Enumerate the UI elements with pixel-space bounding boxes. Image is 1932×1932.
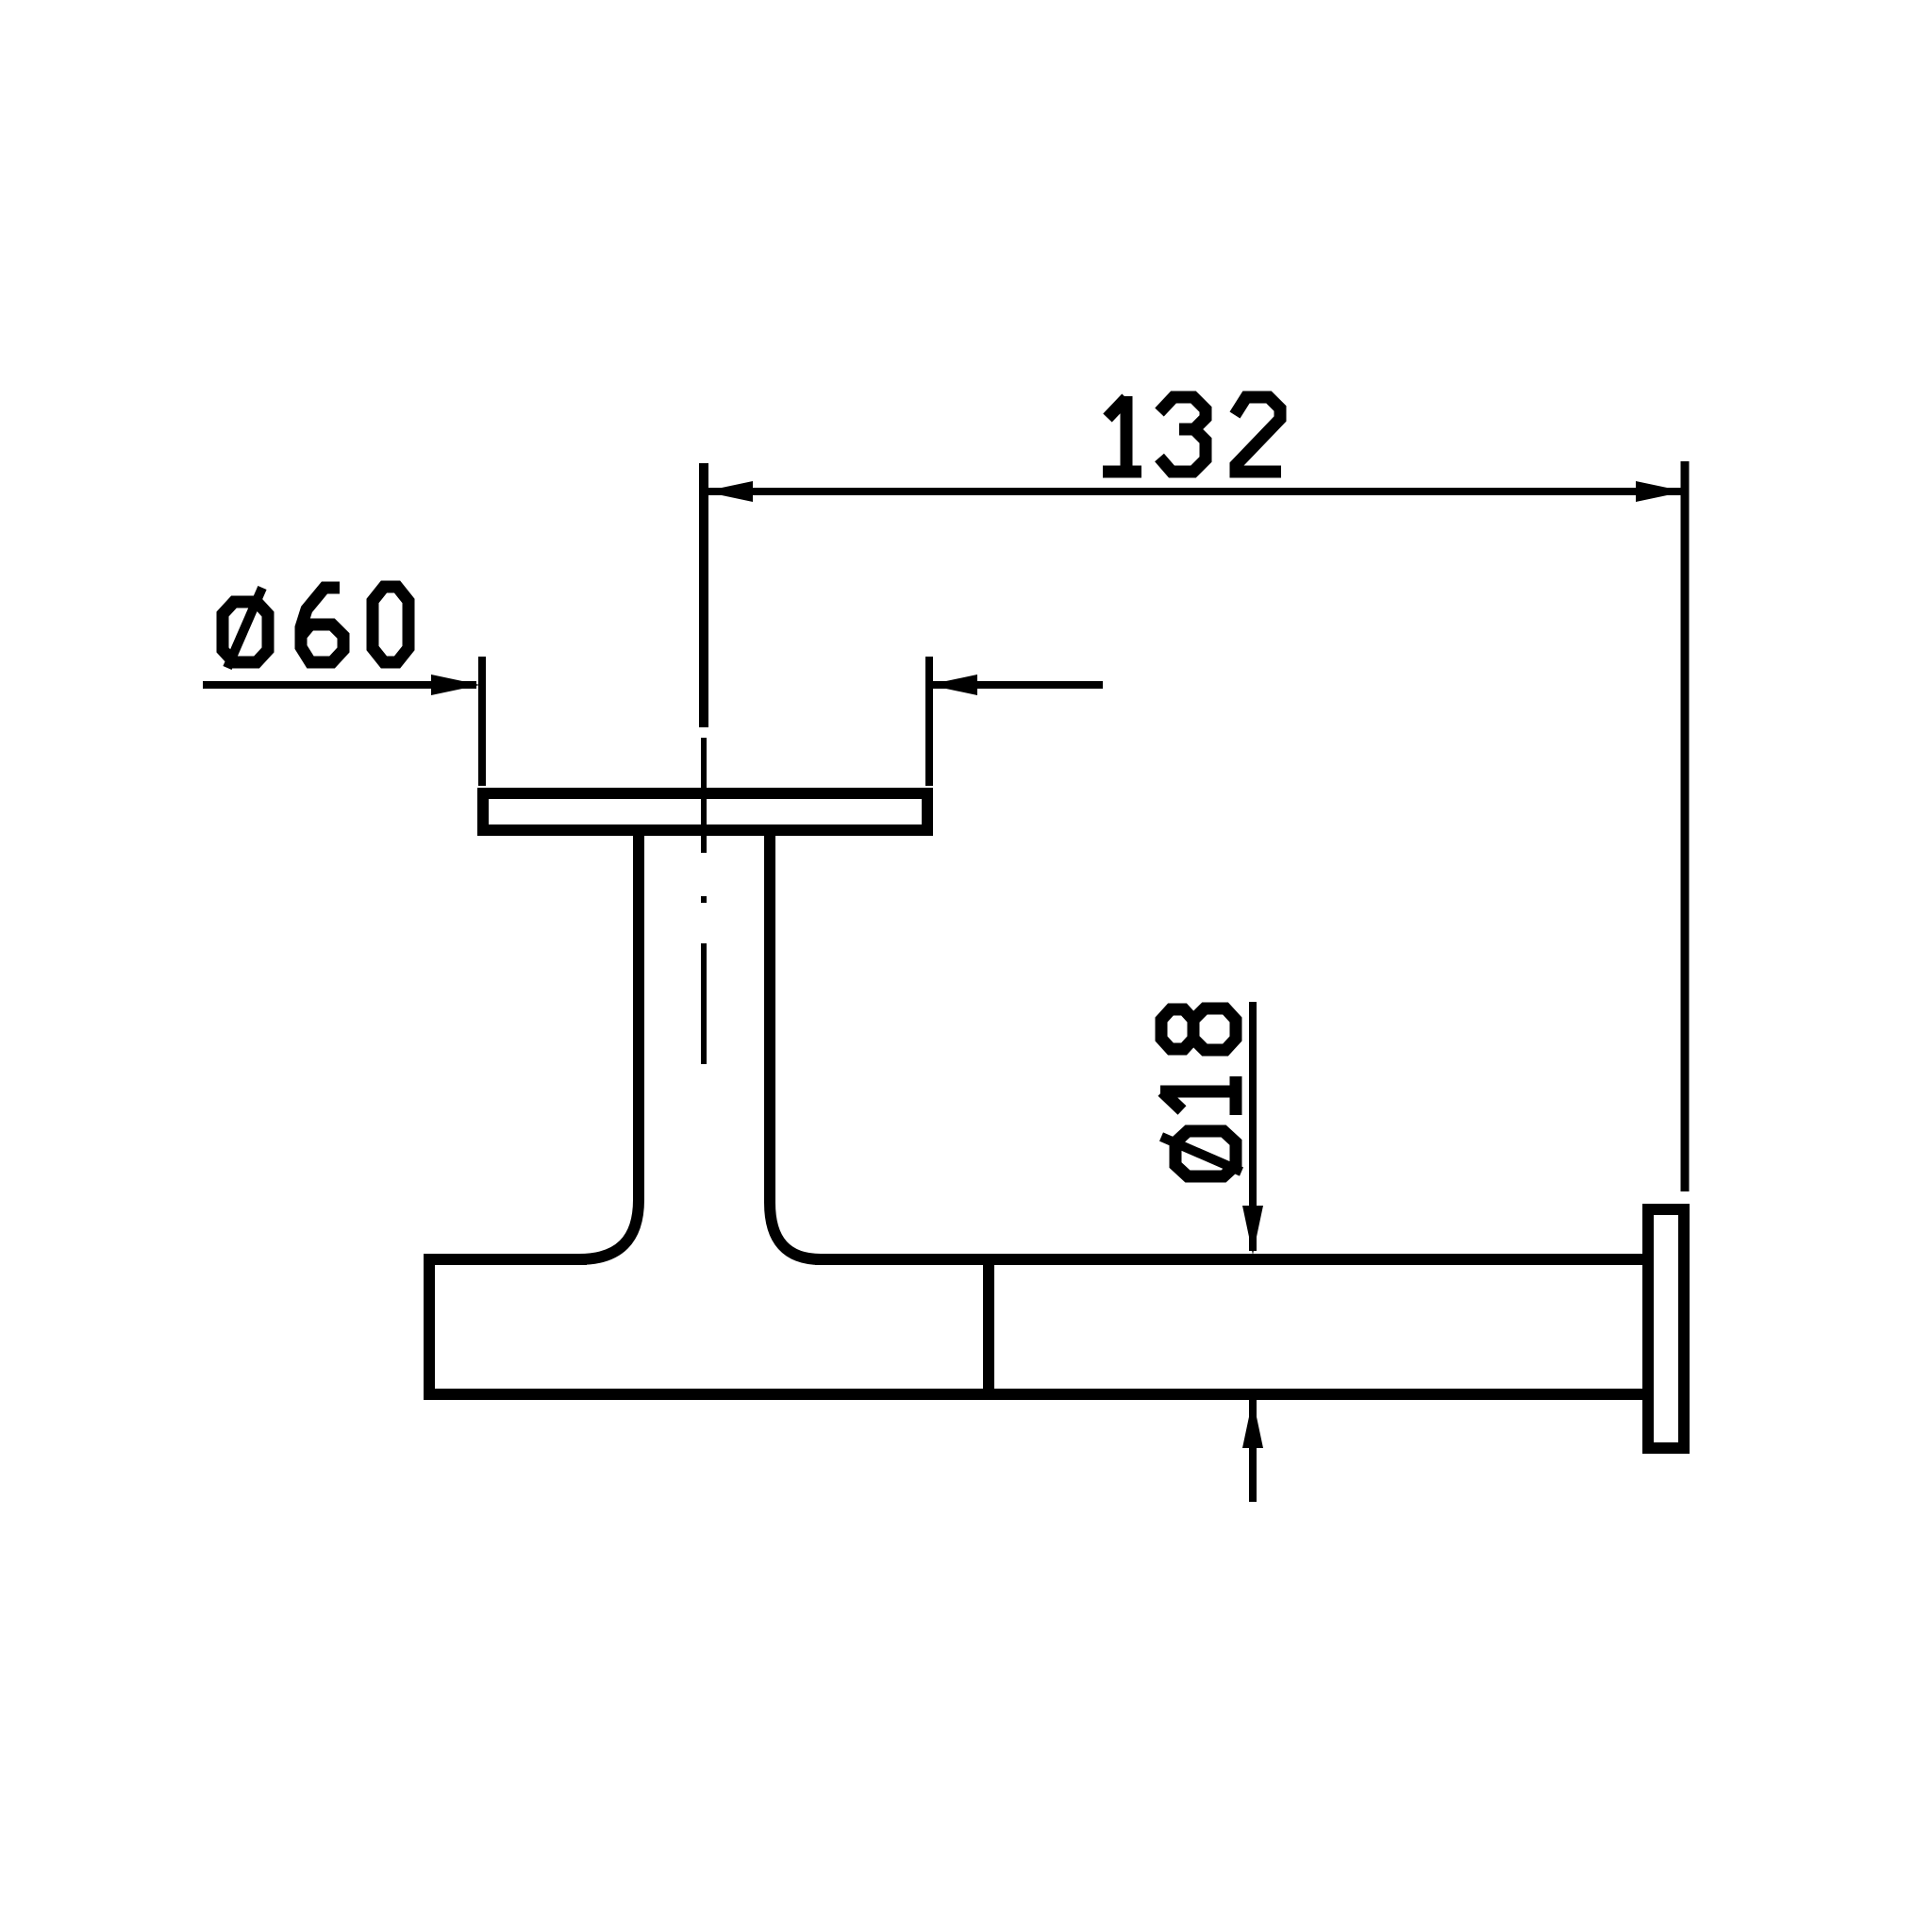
bar divider line bbox=[983, 1259, 994, 1394]
arrowhead Ø18 upper bbox=[1242, 1206, 1263, 1255]
dimension line 132 bbox=[704, 488, 1685, 495]
arrowhead 132 left bbox=[704, 481, 753, 502]
wall plate (right end) bbox=[1648, 1209, 1684, 1448]
dimension line Ø18 lower bbox=[1249, 1400, 1257, 1502]
bar (roll rail) outline bbox=[429, 1259, 1642, 1394]
arrowhead Ø18 lower bbox=[1242, 1399, 1263, 1448]
dimension line Ø60 right bbox=[932, 681, 1103, 689]
extension line Ø60 left bbox=[478, 657, 486, 786]
arrowhead Ø60 left bbox=[431, 675, 480, 695]
dimension text 132 bbox=[1103, 396, 1281, 472]
dimension line Ø18 upper bbox=[1249, 1002, 1257, 1251]
extension line Ø60 right bbox=[925, 657, 933, 786]
stem (pedestal) left side with fillet bbox=[579, 836, 639, 1259]
centerline of stem (dash-dot) bbox=[701, 738, 707, 1064]
dimension line Ø60 left bbox=[203, 681, 476, 689]
extension line 132 left bbox=[699, 463, 708, 727]
extension line 132 right bbox=[1681, 461, 1690, 1191]
dimension text Ø60 bbox=[223, 587, 408, 668]
arrowhead 132 right bbox=[1636, 481, 1685, 502]
stem (pedestal) right side with fillet bbox=[770, 836, 821, 1259]
dimension text Ø18 (rotated) bbox=[1160, 1008, 1241, 1176]
arrowhead Ø60 right bbox=[928, 675, 977, 695]
flange plate (top mounting plate) bbox=[483, 793, 927, 830]
